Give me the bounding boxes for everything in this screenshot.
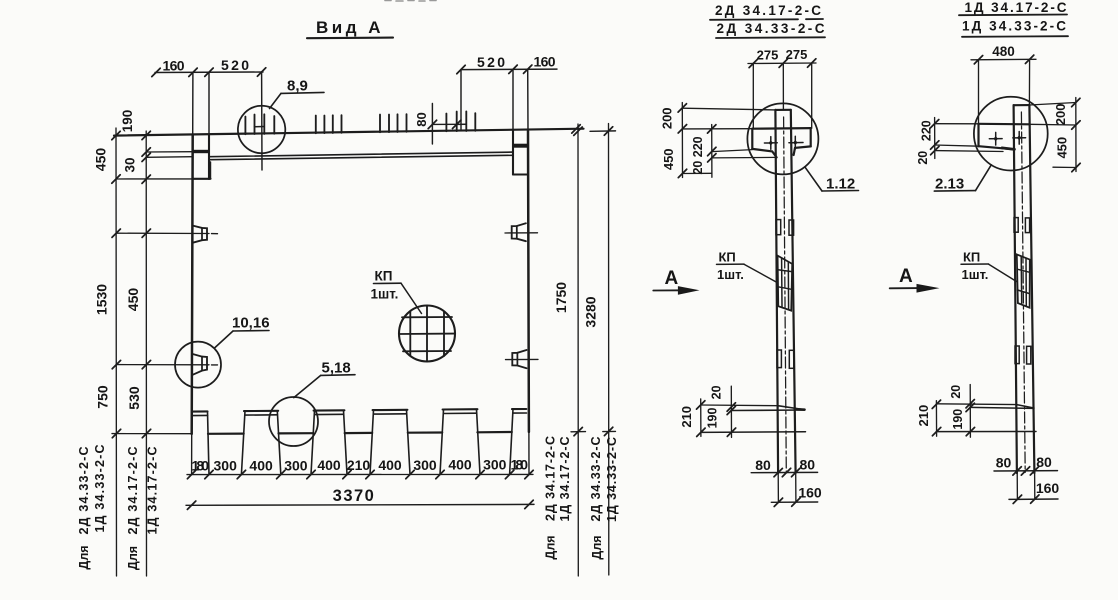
panel left edge (with extension above): [192, 72, 194, 135]
svg-text:20: 20: [916, 151, 930, 165]
callout 10,16 underline: [233, 330, 269, 333]
svg-text:2Д 34.33-2-С: 2Д 34.33-2-С: [717, 21, 825, 36]
strand cross right (right section): [1013, 132, 1026, 145]
svg-text:530: 530: [126, 386, 142, 410]
svg-text:1Д 34.33-2-С: 1Д 34.33-2-С: [962, 19, 1066, 34]
svg-text:Для: Для: [77, 545, 91, 569]
flange top right section: [979, 123, 1030, 126]
right dimension line 3280: [608, 124, 610, 576]
dim text 450 middle: [125, 288, 141, 312]
dim text 520 top-right: [477, 54, 505, 70]
svg-text:А: А: [665, 268, 679, 289]
bottom dimension line row: [187, 473, 533, 475]
bottom reference line middle: [701, 431, 806, 434]
svg-text:400: 400: [448, 457, 472, 473]
KP mesh grid: [399, 306, 454, 361]
callout 2.13 leader: [976, 165, 992, 191]
svg-text:2Д 34.33-2-С: 2Д 34.33-2-С: [77, 447, 91, 535]
dim 480: [971, 58, 1036, 61]
product codes bottom right: [544, 436, 620, 560]
svg-text:1750: 1750: [553, 282, 569, 313]
svg-text:2Д 34.17-2-С: 2Д 34.17-2-С: [715, 3, 821, 18]
svg-text:Для: Для: [590, 535, 604, 559]
svg-text:450: 450: [1054, 137, 1069, 159]
KP label underline: [374, 282, 402, 284]
tooth 3: [311, 410, 347, 474]
callout 10,16 leader: [215, 331, 234, 348]
svg-text:400: 400: [378, 457, 402, 473]
bottom outer dim 210 right section: [935, 401, 937, 437]
callout 1.12 leader: [805, 167, 822, 191]
dim text 190: [120, 110, 135, 133]
svg-text:1шт.: 1шт.: [371, 287, 399, 302]
stem centerline: [784, 117, 787, 473]
rebar tick group 3: [380, 114, 407, 132]
dim 160 right section: [1009, 498, 1058, 500]
right lug B centerline: [506, 358, 539, 360]
KP label middle section: [717, 250, 744, 283]
strand cross right: [789, 136, 803, 149]
svg-text:2Д 34.17-2-С: 2Д 34.17-2-С: [126, 447, 140, 535]
svg-text:3280: 3280: [583, 296, 599, 327]
dim text 160 top-right: [534, 54, 556, 70]
svg-text:200: 200: [1053, 104, 1068, 126]
svg-text:20: 20: [710, 385, 724, 399]
callout 10,16 label: [232, 315, 270, 332]
extension lines 480: [978, 60, 980, 124]
KP leader right: [989, 264, 1017, 281]
dim 160 middle: [771, 501, 817, 503]
dim text 1530: [94, 284, 110, 315]
stem right edge: [791, 110, 796, 473]
KP leader: [401, 283, 422, 313]
callout 1.12 label: [826, 175, 855, 192]
rib double line lower: [210, 155, 514, 159]
svg-text:1Д 34.33-2-С: 1Д 34.33-2-С: [93, 445, 107, 533]
svg-text:300: 300: [413, 457, 437, 473]
svg-text:КП: КП: [963, 249, 980, 264]
extension stem top right: [1029, 103, 1075, 106]
svg-text:1Д 34.33-2-С: 1Д 34.33-2-С: [605, 437, 619, 522]
detail circle 5,18: [269, 397, 318, 446]
svg-text:450: 450: [661, 148, 676, 170]
svg-text:400: 400: [317, 457, 341, 473]
left lug 2: [193, 354, 207, 375]
svg-text:1шт.: 1шт.: [962, 267, 989, 282]
left column inner edge: [208, 72, 210, 135]
bottom outer dim line 210: [700, 399, 702, 437]
embedded plates middle lower pair: [777, 350, 781, 368]
flange right underside: [794, 146, 811, 155]
svg-text:8,9: 8,9: [287, 78, 308, 95]
svg-text:200: 200: [660, 107, 675, 129]
view title "Вид А": [316, 18, 384, 37]
top edge extension segment at 3280 line: [590, 130, 616, 132]
svg-text:3370: 3370: [333, 487, 376, 505]
tooth 5: [440, 409, 480, 474]
panel top edge: [114, 129, 584, 136]
tooth 2: [241, 411, 280, 475]
bottom inner dim line 190,20: [730, 386, 732, 437]
svg-text:190: 190: [120, 110, 135, 133]
svg-text:1Д 34.17-2-С: 1Д 34.17-2-С: [146, 447, 160, 535]
detail circle 8,9: [238, 106, 285, 153]
extension line y=233 lug1 centerline: [116, 232, 217, 235]
callout 5,18 label: [322, 360, 351, 377]
extension flange top right: [1029, 123, 1076, 126]
svg-text:1Д 34.17-2-С: 1Д 34.17-2-С: [965, 0, 1067, 15]
left inner dimension line: [145, 131, 147, 576]
right lug B: [512, 350, 526, 368]
svg-text:210: 210: [916, 405, 931, 427]
svg-text:300: 300: [483, 457, 507, 473]
embedded plates right upper pair: [1014, 218, 1018, 233]
drip wedge right section: [936, 403, 1016, 406]
extension line y=152: [146, 151, 193, 153]
right dimension line 1750: [577, 124, 579, 576]
title underline: [307, 37, 393, 40]
dim text 750: [95, 385, 111, 409]
svg-text:160: 160: [798, 485, 822, 501]
svg-text:80: 80: [1036, 454, 1052, 470]
stem right edge right section: [1029, 105, 1034, 473]
callout 2.13 label: [935, 176, 964, 193]
left dim line (220,20) right section: [934, 118, 936, 159]
top dimension line left (160,520): [155, 71, 263, 74]
callout 8,9 label: [287, 78, 308, 95]
svg-text:Для: Для: [544, 535, 558, 559]
bottom inner dim 190,20 right section: [969, 385, 971, 438]
svg-text:80: 80: [755, 457, 771, 473]
stem tip extensions right section: [1017, 471, 1035, 499]
svg-text:400: 400: [249, 457, 273, 473]
extension y=173.4: [683, 172, 712, 174]
right column foot bottom: [513, 173, 527, 175]
flange left underside: [752, 149, 776, 158]
right column inner edge: [512, 69, 514, 130]
svg-text:КП: КП: [375, 269, 393, 284]
rebar tick group 2: [316, 115, 342, 133]
callout 8,9 underline: [281, 92, 324, 93]
drip wedge middle: [701, 404, 778, 407]
bottom teeth: tooth 1: [193, 411, 210, 474]
header 1Д34.17-2-С / 1Д34.33-2-С: [962, 0, 1067, 34]
left column foot bottom: [193, 178, 211, 180]
dim text 520 top-left: [221, 57, 249, 73]
svg-text:20: 20: [691, 161, 705, 175]
svg-text:20: 20: [949, 385, 963, 399]
svg-text:Для: Для: [126, 546, 140, 570]
svg-text:1530: 1530: [94, 284, 110, 315]
stem tip extensions middle: [778, 473, 796, 503]
flange left end: [751, 129, 753, 149]
svg-text:450: 450: [125, 288, 141, 312]
svg-text:480: 480: [992, 44, 1015, 59]
svg-text:1шт.: 1шт.: [717, 267, 744, 282]
extension y=157.8: [712, 156, 777, 159]
detail circle 10,16: [175, 342, 221, 388]
svg-text:80: 80: [800, 457, 816, 473]
top dimension line right (520,160): [461, 68, 557, 71]
svg-text:А: А: [899, 266, 913, 287]
valley extension ticks right: [571, 430, 616, 432]
svg-text:30: 30: [123, 157, 138, 172]
stem left edge: [775, 110, 778, 473]
right lug A centerline: [505, 232, 538, 234]
left inner dim line (220,20): [711, 125, 713, 178]
svg-text:180: 180: [511, 457, 529, 473]
KP leader middle: [744, 264, 776, 282]
dim text 450 upper: [93, 148, 109, 172]
extension flange top left: [682, 128, 752, 130]
svg-text:80: 80: [996, 454, 1012, 470]
svg-text:2Д 34.33-2-С: 2Д 34.33-2-С: [589, 437, 603, 522]
svg-text:5,18: 5,18: [322, 360, 351, 377]
bottom reference line right section: [936, 431, 1036, 433]
svg-text:520: 520: [477, 54, 505, 70]
flange wing end: [977, 124, 979, 146]
callout 1.12 underline: [822, 190, 859, 193]
header 2Д34.17-2-С / 2Д34.33-2-С: [715, 3, 825, 36]
svg-text:220: 220: [920, 120, 934, 141]
extension stem top level: [682, 108, 775, 110]
extension line y=364.6 lug2 centerline: [116, 364, 217, 366]
svg-text:КП: КП: [719, 250, 736, 265]
stem centerline right section: [1021, 112, 1025, 472]
KP hatch box right: [1017, 254, 1030, 307]
dim 80 80 right section: [994, 470, 1058, 472]
total dimension 3370: [186, 503, 534, 506]
svg-text:190: 190: [705, 408, 719, 429]
rib double line upper: [210, 152, 514, 157]
svg-text:1.12: 1.12: [826, 175, 855, 192]
extension line x=261.6 through detail circle: [261, 72, 263, 170]
dim 80 80 middle: [751, 471, 817, 473]
svg-text:210: 210: [347, 457, 371, 473]
right lug A: [512, 223, 526, 241]
section arrow A middle: [665, 268, 679, 289]
tooth 6: [510, 409, 527, 475]
dim text 530: [126, 386, 142, 410]
dim text 160 top-left: [163, 58, 185, 74]
svg-text:180: 180: [192, 458, 210, 474]
svg-text:220: 220: [691, 136, 705, 157]
svg-text:210: 210: [679, 406, 694, 428]
KP mesh detail circle: [399, 306, 455, 362]
svg-text:520: 520: [221, 57, 249, 73]
KP label right section: [962, 249, 989, 281]
extension y=167.5 right: [1053, 166, 1076, 168]
svg-text:300: 300: [214, 458, 238, 474]
svg-text:300: 300: [284, 457, 308, 473]
callout 8,9 leader: [270, 93, 282, 108]
dim 275 275: [748, 62, 816, 65]
valley line segments: [208, 432, 512, 434]
flange underside right section: [979, 146, 1014, 149]
header underlines: [710, 18, 823, 21]
strand cross left (right section): [989, 132, 1002, 145]
svg-text:275: 275: [786, 47, 808, 62]
callout 5,18 underline: [321, 374, 355, 377]
svg-text:160: 160: [534, 54, 556, 70]
left column bearing pad (black): [193, 150, 209, 153]
flange right end: [810, 128, 812, 146]
strand cross left: [764, 137, 777, 150]
KP hatch box middle: [778, 256, 793, 311]
embedded plates middle upper pair: [776, 220, 781, 235]
dim 80 between rebar groups: [431, 104, 433, 145]
svg-text:275: 275: [757, 48, 779, 63]
underside extension wedge lines: [935, 145, 979, 146]
svg-text:1Д 34.17-2-С: 1Д 34.17-2-С: [558, 437, 572, 522]
rebar tick group 1: [245, 114, 274, 134]
svg-text:190: 190: [951, 409, 965, 430]
svg-text:450: 450: [93, 148, 109, 172]
svg-text:80: 80: [414, 112, 429, 126]
dim text 3280: [583, 296, 599, 327]
rebar tick group 4: [446, 111, 475, 131]
detail circle 1.12: [747, 103, 818, 174]
extension y=151.5: [712, 150, 753, 152]
dim text 30: [123, 157, 138, 172]
extension line y=433.5 left: [112, 433, 192, 435]
right column bearing pad (black): [513, 144, 528, 148]
svg-text:160: 160: [1036, 480, 1060, 496]
callout 5,18 leader: [294, 375, 321, 397]
svg-text:Вид А: Вид А: [316, 18, 384, 37]
stem top cap: [775, 109, 790, 111]
flange top extension left: [935, 123, 979, 125]
svg-text:750: 750: [95, 385, 111, 409]
extension lines 275 dim: [752, 63, 754, 128]
left lug 1: [193, 226, 207, 243]
svg-text:160: 160: [163, 58, 185, 74]
header underlines right: [959, 14, 1067, 17]
left outer dim line (200,450): [681, 103, 683, 178]
stem left edge right section: [1014, 105, 1017, 473]
stem top cap right section: [1014, 104, 1030, 106]
bottom dim texts: [192, 457, 529, 474]
embedded plates right lower pair: [1015, 346, 1019, 364]
extension line y=179: [116, 178, 193, 180]
flange top: [752, 127, 810, 130]
extension line y=157.3: [146, 156, 193, 159]
callout 2.13 underline: [934, 190, 975, 193]
svg-text:2Д 34.17-2-С: 2Д 34.17-2-С: [544, 436, 558, 521]
detail circle 2.13: [974, 97, 1048, 171]
KP label main view: [371, 269, 399, 302]
tooth 4: [370, 410, 410, 475]
section arrow A right: [899, 266, 913, 287]
product codes bottom left: [77, 445, 160, 571]
dim text 1750: [553, 282, 569, 313]
extension line x=461: [460, 70, 462, 131]
left outer dimension line: [115, 128, 118, 576]
left column foot step: [210, 162, 212, 179]
right dim line (200,450) right section: [1075, 98, 1077, 172]
cropped text fragment at top edge: [385, 0, 436, 2]
svg-text:10,16: 10,16: [232, 315, 270, 332]
panel right edge (with extension above): [527, 69, 529, 130]
